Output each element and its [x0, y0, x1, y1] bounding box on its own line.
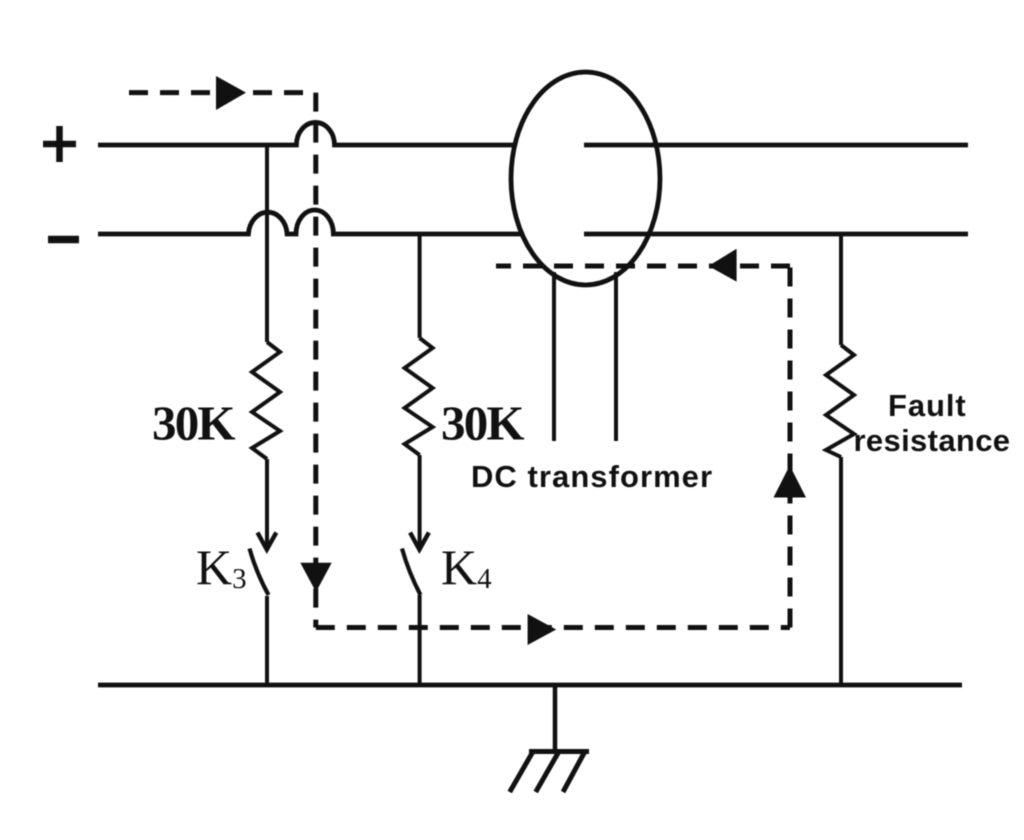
resistor fault resistance [826, 345, 854, 457]
svg-text:K4: K4 [441, 539, 492, 595]
svg-text:30K: 30K [152, 396, 235, 451]
wire - bus down to fault resistor [839, 234, 843, 345]
plus terminal label [43, 126, 76, 162]
dashed current path: right vertical up [788, 266, 793, 628]
ground slash 2 [536, 752, 559, 793]
positive bus inner segment through transformer [584, 143, 968, 148]
transformer lead left [552, 272, 556, 441]
dashed current path: top horizontal [129, 90, 306, 95]
bottom ground bus [98, 683, 962, 688]
ground symbol bar [529, 749, 589, 754]
svg-text:Fault: Fault [888, 388, 967, 423]
negative bus (-) left with two hops [98, 210, 530, 234]
dashed arrow down (mid left) [300, 563, 331, 592]
open arrowhead down at K4 [410, 533, 429, 550]
resistor R1 30K [252, 342, 280, 459]
dashed arrow up (right vertical) [774, 465, 807, 497]
wire from - bus down to resistor R2 [418, 234, 422, 338]
open arrowhead down at K3 [258, 533, 277, 550]
svg-text:DC transformer: DC transformer [471, 459, 713, 494]
switch K4 blade [402, 549, 421, 596]
svg-text:K3: K3 [196, 539, 247, 595]
dashed current path: return horizontal at y266 [496, 264, 790, 269]
transformer lead right [614, 272, 618, 441]
svg-text:30K: 30K [441, 396, 524, 451]
wire from + bus down to resistor R1 [265, 145, 269, 342]
dashed arrow right (top) [216, 76, 246, 110]
wire K3 to bottom bus [265, 596, 269, 685]
dashed arrow right (bottom) [528, 614, 557, 645]
negative bus inner segment through transformer [584, 232, 968, 237]
wire R2 to arrow [418, 455, 422, 546]
ground slash 3 [563, 752, 585, 793]
positive bus (+) with hop over dashed line [98, 122, 520, 145]
wire R1 to arrow [265, 459, 269, 546]
DC transformer ellipse [511, 72, 660, 285]
ground slash 1 [510, 752, 533, 793]
switch K3 blade [250, 549, 269, 596]
svg-text:resistance: resistance [854, 423, 1011, 458]
minus terminal label [48, 236, 79, 244]
resistor R2 30K [405, 338, 433, 455]
dashed current path: bottom horizontal [316, 625, 790, 630]
ground stem [553, 685, 558, 751]
wire K4 to bottom bus [418, 595, 422, 685]
dashed current path: left vertical down [313, 93, 318, 628]
wire fault resistor to bottom bus [839, 457, 843, 685]
dashed arrow left (return) [708, 249, 736, 282]
